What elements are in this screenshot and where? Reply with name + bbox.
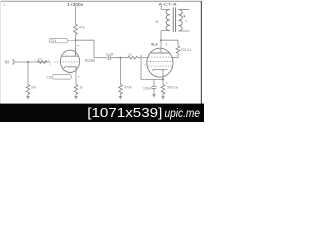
transformer T1 core bbox=[173, 8, 175, 33]
node a junction dot bbox=[75, 39, 77, 41]
resistor R8 screen bbox=[176, 46, 180, 54]
wire B+ down bbox=[75, 7, 77, 25]
wire V2 cathode down bbox=[162, 69, 164, 84]
wire node a right bbox=[76, 39, 95, 41]
wire R4 to ground bbox=[27, 94, 29, 96]
ground (C2) bbox=[152, 95, 155, 97]
svg-text:C1k: C1k bbox=[51, 39, 57, 43]
ground (input) bbox=[26, 97, 29, 99]
tube V1 grid (dashed) bbox=[54, 61, 79, 63]
wire R7 to ground bbox=[162, 94, 164, 97]
wire input to grid bbox=[14, 61, 51, 63]
svg-text:ECC83: ECC83 bbox=[85, 58, 95, 62]
tube V2 control grid (dashed) bbox=[148, 65, 172, 67]
svg-text:1.: 1. bbox=[3, 3, 6, 7]
node g2 junction dot bbox=[120, 57, 122, 59]
wire plate junction to screen resistor bbox=[161, 39, 178, 41]
svg-text:[1071x539]upic.me: [1071x539]upic.me bbox=[87, 105, 200, 120]
resistor R7 cathode V2 bbox=[161, 85, 165, 95]
tube V1 plate lead bbox=[75, 49, 77, 56]
net label box (below V1) bbox=[52, 75, 71, 80]
tube V1 envelope bbox=[60, 50, 79, 72]
svg-text:68k: 68k bbox=[38, 57, 43, 61]
node cathode junction dot bbox=[162, 78, 164, 80]
transformer T1 secondary lead bottom bbox=[179, 30, 190, 32]
svg-text:M: M bbox=[156, 20, 159, 24]
frame border left bbox=[0, 1, 2, 104]
wire R5 to V2 grid bbox=[138, 57, 149, 59]
node plate junction dot bbox=[160, 39, 162, 41]
tube V2 cathode bbox=[152, 69, 167, 71]
capacitor C2 bypass bbox=[151, 86, 156, 88]
svg-text:C1k: C1k bbox=[46, 76, 52, 80]
transformer T1 primary stub up bbox=[161, 6, 169, 10]
tube V2 plate bar bbox=[151, 52, 169, 54]
svg-text:1k5: 1k5 bbox=[127, 52, 132, 56]
resistor R6 grid leak V2 bbox=[119, 85, 123, 95]
wire R8 to screen grid bbox=[172, 53, 178, 57]
resistor R5 grid stopper V2 bbox=[128, 56, 138, 59]
frame border top bbox=[1, 0, 202, 2]
resistor R1 plate resistor bbox=[74, 24, 78, 35]
frame border right bbox=[200, 1, 202, 104]
ground (R7) bbox=[161, 97, 164, 99]
ground (V1 cathode) bbox=[74, 97, 77, 99]
tube V2 screen grid (dashed) bbox=[147, 61, 173, 63]
wire net label to node a bbox=[68, 40, 76, 42]
tube V2 envelope bbox=[147, 48, 173, 77]
transformer T1 secondary winding bbox=[178, 10, 182, 32]
svg-text:A-CT-A: A-CT-A bbox=[159, 1, 177, 6]
svg-text:0.1M: 0.1M bbox=[106, 52, 114, 56]
capacitor C1 coupling bbox=[108, 55, 110, 60]
wire grid leak R6 down bbox=[120, 58, 122, 85]
wire C2 to ground bbox=[153, 88, 155, 94]
transformer T1 primary winding bbox=[166, 10, 170, 31]
wire R2 to ground bbox=[75, 94, 77, 96]
wire suppressor to cathode bbox=[141, 55, 163, 80]
node input junction dot bbox=[27, 61, 29, 63]
svg-text:1M: 1M bbox=[31, 86, 36, 90]
wire down to screen resistor bbox=[177, 40, 179, 46]
wire C1 to node g2 bbox=[110, 57, 128, 59]
svg-text:470-D1: 470-D1 bbox=[181, 48, 192, 52]
wire plate to coupling cap bbox=[94, 57, 107, 59]
transformer T1 primary stub bottom bbox=[161, 30, 170, 32]
svg-text:6L6: 6L6 bbox=[151, 42, 157, 46]
wire V2 plate up to transformer bbox=[160, 31, 162, 54]
svg-text:100uF: 100uF bbox=[143, 86, 152, 90]
svg-text:1+300v: 1+300v bbox=[67, 2, 84, 7]
wire V1 cathode down bbox=[75, 67, 77, 85]
svg-text:1k: 1k bbox=[79, 86, 83, 90]
net label box (top) bbox=[49, 39, 67, 43]
tube V1 plate bar bbox=[62, 55, 79, 57]
svg-text:500 1w: 500 1w bbox=[167, 86, 178, 90]
resistor R2 cathode resistor bbox=[74, 85, 78, 95]
tube V1 cathode bbox=[64, 67, 77, 69]
wire input junction down bbox=[27, 62, 29, 85]
resistor R3 grid stopper (series) bbox=[38, 61, 48, 64]
svg-text:IN: IN bbox=[5, 60, 9, 65]
wire down to coupling line bbox=[93, 40, 95, 58]
wire bypass branch bbox=[153, 79, 155, 86]
ground (R6) bbox=[119, 97, 122, 99]
wire R6 to ground bbox=[120, 94, 122, 96]
transformer T1 phase dot bbox=[183, 15, 185, 17]
watermark bar bbox=[0, 104, 204, 122]
tube V2 suppressor grid (dashed) bbox=[148, 56, 172, 58]
svg-text:470k: 470k bbox=[124, 86, 132, 90]
resistor R4 grid leak bbox=[26, 85, 30, 95]
wire R1 to plate of V1 bbox=[75, 35, 77, 57]
svg-text:47k: 47k bbox=[79, 26, 85, 30]
transformer T1 secondary lead top bbox=[179, 9, 190, 11]
